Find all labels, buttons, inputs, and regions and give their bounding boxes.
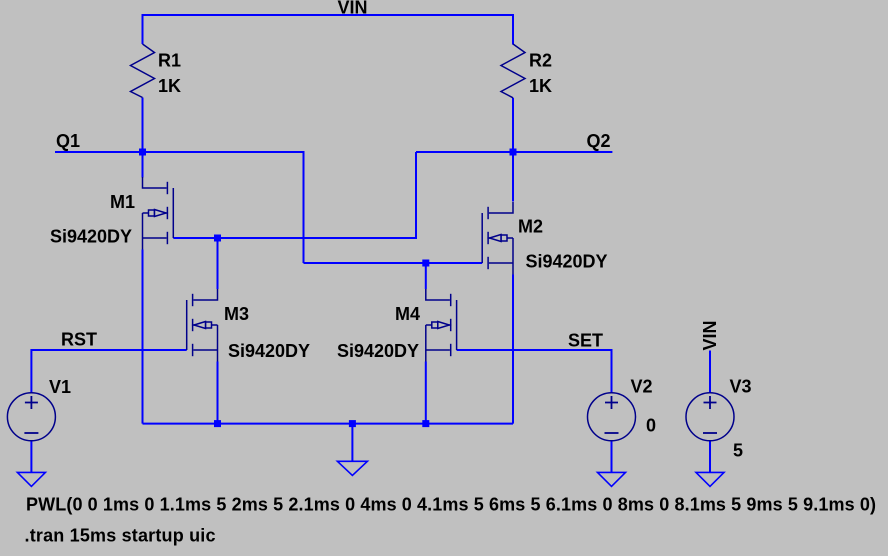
wire R1 bottom lead — [142, 98, 144, 153]
wire bottom rail — [143, 423, 514, 425]
junction M2 gate / M4 drain — [422, 260, 429, 267]
wire net SET horizontal — [457, 349, 612, 351]
wire R2 bottom lead — [512, 98, 514, 152]
svg-text:.tran 15ms startup uic: .tran 15ms startup uic — [25, 526, 216, 546]
svg-text:V1: V1 — [49, 377, 71, 397]
wire V3 to ground — [709, 441, 711, 472]
ground below V2 — [598, 472, 626, 486]
svg-text:Si9420DY: Si9420DY — [50, 227, 132, 247]
svg-text:R2: R2 — [529, 50, 552, 70]
svg-text:M2: M2 — [518, 217, 543, 237]
svg-text:PWL(0 0 1ms 0 1.1ms 5 2ms 5 2.: PWL(0 0 1ms 0 1.1ms 5 2ms 5 2.1ms 0 4ms … — [26, 495, 876, 515]
wire M4 drain — [425, 263, 427, 289]
wire VIN stub to V3 — [709, 351, 711, 393]
svg-text:0: 0 — [646, 416, 656, 436]
junction rail / middle ground — [349, 420, 356, 427]
svg-text:Si9420DY: Si9420DY — [337, 341, 419, 361]
svg-text:VIN: VIN — [700, 320, 720, 350]
transistor M4 (pmos, faces right) — [426, 289, 457, 362]
wire R2 top lead — [512, 14, 514, 45]
wire M4 source down — [425, 362, 427, 424]
resistor R2 — [501, 44, 525, 98]
resistor R1 — [131, 44, 155, 98]
transistor M2 (pmos, faces left) — [482, 202, 513, 275]
wire net RST horizontal — [31, 349, 186, 351]
svg-text:1K: 1K — [529, 76, 552, 96]
ground below V3 — [696, 472, 724, 486]
wire M3 source down — [217, 362, 219, 424]
wire node Q2 horizontal — [416, 151, 612, 153]
wire top rail horizontal — [143, 14, 514, 16]
wire M1 gate horizontal — [173, 237, 416, 239]
svg-text:M1: M1 — [110, 192, 135, 212]
junction node Q2 — [510, 149, 517, 156]
wire M2 source down — [512, 275, 514, 424]
junction M1 gate / M3 drain — [214, 235, 221, 242]
svg-text:1K: 1K — [158, 76, 181, 96]
svg-text:RST: RST — [61, 330, 97, 350]
wire M2 drain — [512, 152, 514, 202]
voltage source V1 — [7, 393, 55, 441]
svg-text:Q2: Q2 — [587, 131, 611, 151]
svg-text:M3: M3 — [224, 304, 249, 324]
wire V1 to ground — [30, 441, 32, 472]
svg-text:SET: SET — [568, 331, 603, 351]
wire M3 drain — [217, 238, 219, 289]
wire RST to V1 vertical — [30, 349, 32, 393]
wire node Q1 horizontal — [55, 151, 304, 153]
junction rail / M4 source — [422, 420, 429, 427]
svg-text:R1: R1 — [158, 50, 181, 70]
svg-text:M4: M4 — [395, 304, 420, 324]
junction rail / M3 source — [214, 420, 221, 427]
svg-text:V3: V3 — [730, 376, 752, 396]
svg-text:Si9420DY: Si9420DY — [526, 252, 608, 272]
wire V2 to ground — [611, 441, 613, 472]
net VIN top rail — [31, 14, 710, 472]
svg-text:VIN: VIN — [338, 0, 368, 18]
svg-text:V2: V2 — [631, 376, 653, 396]
svg-text:Q1: Q1 — [56, 131, 80, 151]
voltage source V3 — [686, 393, 734, 441]
wire Q1 to M2 gate vertical — [303, 151, 305, 263]
wire M1 gate to Q2 vertical — [415, 152, 417, 239]
svg-text:5: 5 — [733, 441, 743, 461]
transistor M1 (pmos, faces right) — [143, 177, 174, 250]
svg-text:Si9420DY: Si9420DY — [228, 341, 310, 361]
wire M2 gate horizontal — [304, 262, 483, 264]
voltage source V2 — [588, 393, 636, 441]
ground below middle rail — [337, 461, 367, 475]
wire SET to V2 vertical — [611, 349, 613, 393]
wire M1 drain — [142, 152, 144, 178]
junction node Q1 — [139, 149, 146, 156]
wire R1 top lead — [142, 14, 144, 44]
transistor M3 (pmos, faces left) — [187, 289, 218, 362]
wire rail to middle ground — [351, 424, 353, 461]
ground below V1 — [17, 472, 45, 486]
wire M1 source down — [142, 250, 144, 424]
